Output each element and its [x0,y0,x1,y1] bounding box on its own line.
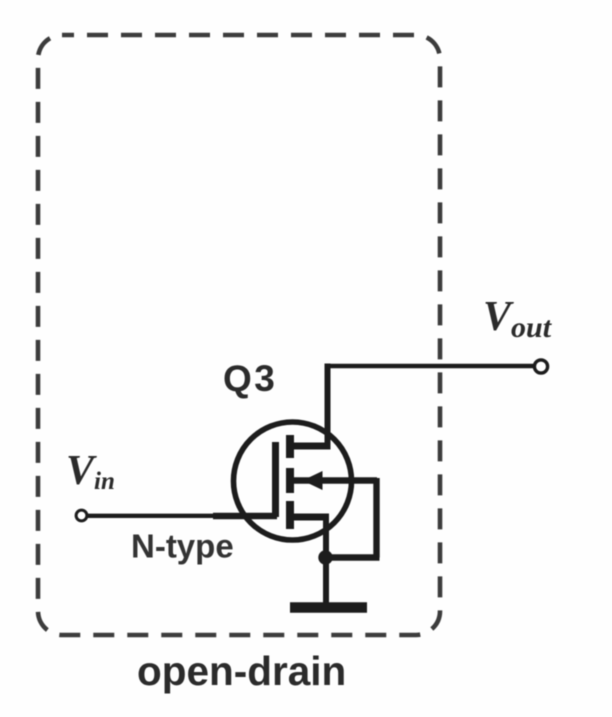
terminal Vin [76,510,87,521]
source wire vertical [323,517,329,605]
ground [290,602,367,613]
drain lead horizontal [291,443,331,450]
transistor Q3 body circle [234,422,352,540]
channel segment (drain) [286,435,294,458]
svg-text:Vin: Vin [66,448,115,495]
dashed enclosure box [38,35,440,635]
body arrow head [303,471,323,490]
body arrow line [292,477,377,483]
wire from Vin [87,514,216,518]
svg-text:N-type: N-type [131,528,234,565]
body return wire horizontal [325,554,380,560]
drain wire vertical [325,364,331,450]
gate lead [213,513,277,520]
gate bar [272,442,279,517]
channel segment (body) [286,468,294,493]
channel segment (source) [286,501,294,529]
svg-text:open-drain: open-drain [137,648,346,694]
junction dot [318,550,332,564]
wire to Vout [325,364,536,369]
svg-text:Vout: Vout [483,294,553,344]
terminal Vout [534,360,547,373]
source lead horizontal [291,514,329,521]
body return wire vertical [373,478,379,558]
svg-text:Q3: Q3 [223,358,277,399]
